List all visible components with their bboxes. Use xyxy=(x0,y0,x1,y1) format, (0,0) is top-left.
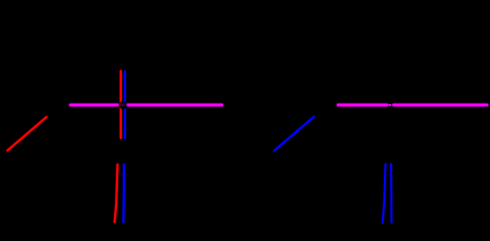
junction: dark node over crossing (left molecule) xyxy=(119,101,127,109)
wire: red diagonal bond (left molecule) xyxy=(8,117,47,151)
wire: magenta horizontal bond left segment (left molecule) xyxy=(71,104,119,107)
wire: red vertical bond lower (left molecule) xyxy=(115,165,118,223)
wire: blue double-bond line right (right molecule) xyxy=(390,164,393,223)
wire: magenta horizontal bond right segment (left molecule) xyxy=(127,104,222,107)
wire: blue diagonal bond (right molecule) xyxy=(274,117,314,151)
wire: magenta horizontal bond left segment (right molecule) xyxy=(338,104,387,107)
wire: red vertical bond upper (left molecule) xyxy=(120,71,122,138)
wire: magenta horizontal bond right segment (right molecule) xyxy=(394,104,488,107)
wire: blue double-bond line left (right molecule) xyxy=(383,164,386,223)
wire: blue vertical bond lower (left molecule) xyxy=(122,165,125,223)
node: small magenta dot at atom position (right molecule) xyxy=(388,104,391,106)
wire: blue vertical bond upper (left molecule) xyxy=(124,72,126,139)
